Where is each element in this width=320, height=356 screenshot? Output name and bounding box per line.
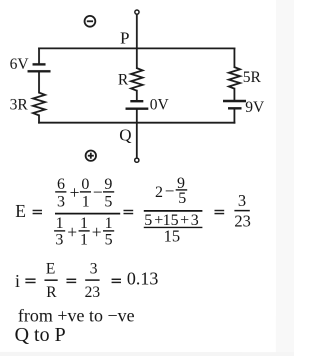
- svg-text:+: +: [67, 222, 77, 242]
- svg-text:1: 1: [80, 215, 88, 232]
- svg-text:+: +: [92, 222, 102, 242]
- minus polarity symbol: [85, 16, 96, 27]
- svg-text:3: 3: [55, 231, 63, 248]
- svg-text:23: 23: [85, 284, 101, 301]
- wire middle branch between R and battery: [136, 91, 138, 101]
- terminal node top: [135, 10, 139, 14]
- main fraction bar 1: [55, 213, 120, 215]
- svg-text:9V: 9V: [245, 99, 265, 116]
- svg-text:23: 23: [234, 211, 251, 230]
- wire left branch lower: [38, 115, 40, 122]
- svg-text:5: 5: [178, 190, 186, 207]
- svg-text:6V: 6V: [10, 56, 30, 73]
- svg-text:−: −: [165, 182, 175, 201]
- terminal node bottom: [135, 158, 139, 162]
- svg-text:3: 3: [191, 212, 199, 229]
- page shading bottom edge: [0, 352, 294, 356]
- wire left branch middle: [38, 71, 40, 92]
- svg-text:Q to P: Q to P: [15, 324, 66, 346]
- svg-text:P: P: [120, 29, 129, 48]
- plus polarity symbol: [86, 150, 96, 160]
- svg-text:3: 3: [238, 191, 246, 210]
- svg-text:R: R: [46, 284, 57, 301]
- svg-text:3: 3: [57, 193, 65, 210]
- wire left branch upper: [38, 48, 40, 64]
- svg-text:+: +: [180, 212, 189, 229]
- svg-text:1: 1: [80, 231, 88, 248]
- wire right branch lower: [233, 109, 235, 123]
- svg-text:E: E: [15, 201, 26, 221]
- svg-text:5: 5: [104, 193, 112, 210]
- svg-text:5R: 5R: [243, 69, 262, 86]
- page shading right edge: [276, 0, 294, 356]
- svg-text:R: R: [118, 72, 129, 89]
- wire middle branch upper: [136, 14, 138, 68]
- svg-text:15: 15: [164, 226, 181, 245]
- battery B3 9V plates: [223, 101, 246, 108]
- wire top horizontal P rail: [39, 47, 234, 49]
- svg-text:0: 0: [81, 176, 89, 193]
- svg-text:3: 3: [90, 260, 98, 277]
- svg-text:i: i: [15, 271, 20, 291]
- secondary bar: [144, 226, 203, 228]
- svg-text:E: E: [46, 261, 55, 278]
- svg-text:5: 5: [105, 231, 113, 248]
- svg-text:3R: 3R: [10, 97, 29, 114]
- wire middle branch lower: [136, 109, 138, 158]
- svg-text:+: +: [70, 183, 80, 203]
- battery B2 0V plates: [126, 101, 149, 109]
- svg-text:from +ve to −ve: from +ve to −ve: [18, 305, 135, 325]
- svg-text:1: 1: [82, 193, 90, 210]
- svg-text:−: −: [93, 182, 103, 202]
- svg-text:1: 1: [56, 215, 64, 232]
- main fraction bar 2: [144, 210, 203, 212]
- svg-text:0V: 0V: [150, 97, 170, 114]
- svg-text:0.13: 0.13: [127, 268, 159, 288]
- resistor 3R zigzag: [33, 93, 45, 116]
- equals 2: [123, 210, 133, 213]
- equals 3: [214, 211, 224, 214]
- wire right branch upper: [233, 48, 235, 67]
- svg-text:Q: Q: [119, 125, 131, 144]
- svg-text:9: 9: [104, 176, 112, 193]
- wire bottom horizontal Q rail: [39, 122, 234, 124]
- battery B1 6V plates: [28, 64, 51, 71]
- wire right branch between 5R and battery: [233, 89, 235, 101]
- svg-text:1: 1: [105, 215, 113, 232]
- resistor 5R zigzag: [229, 67, 240, 89]
- resistor R zigzag (middle): [131, 68, 143, 91]
- svg-text:2: 2: [155, 184, 163, 201]
- svg-text:5: 5: [144, 212, 152, 229]
- svg-text:6: 6: [57, 176, 65, 193]
